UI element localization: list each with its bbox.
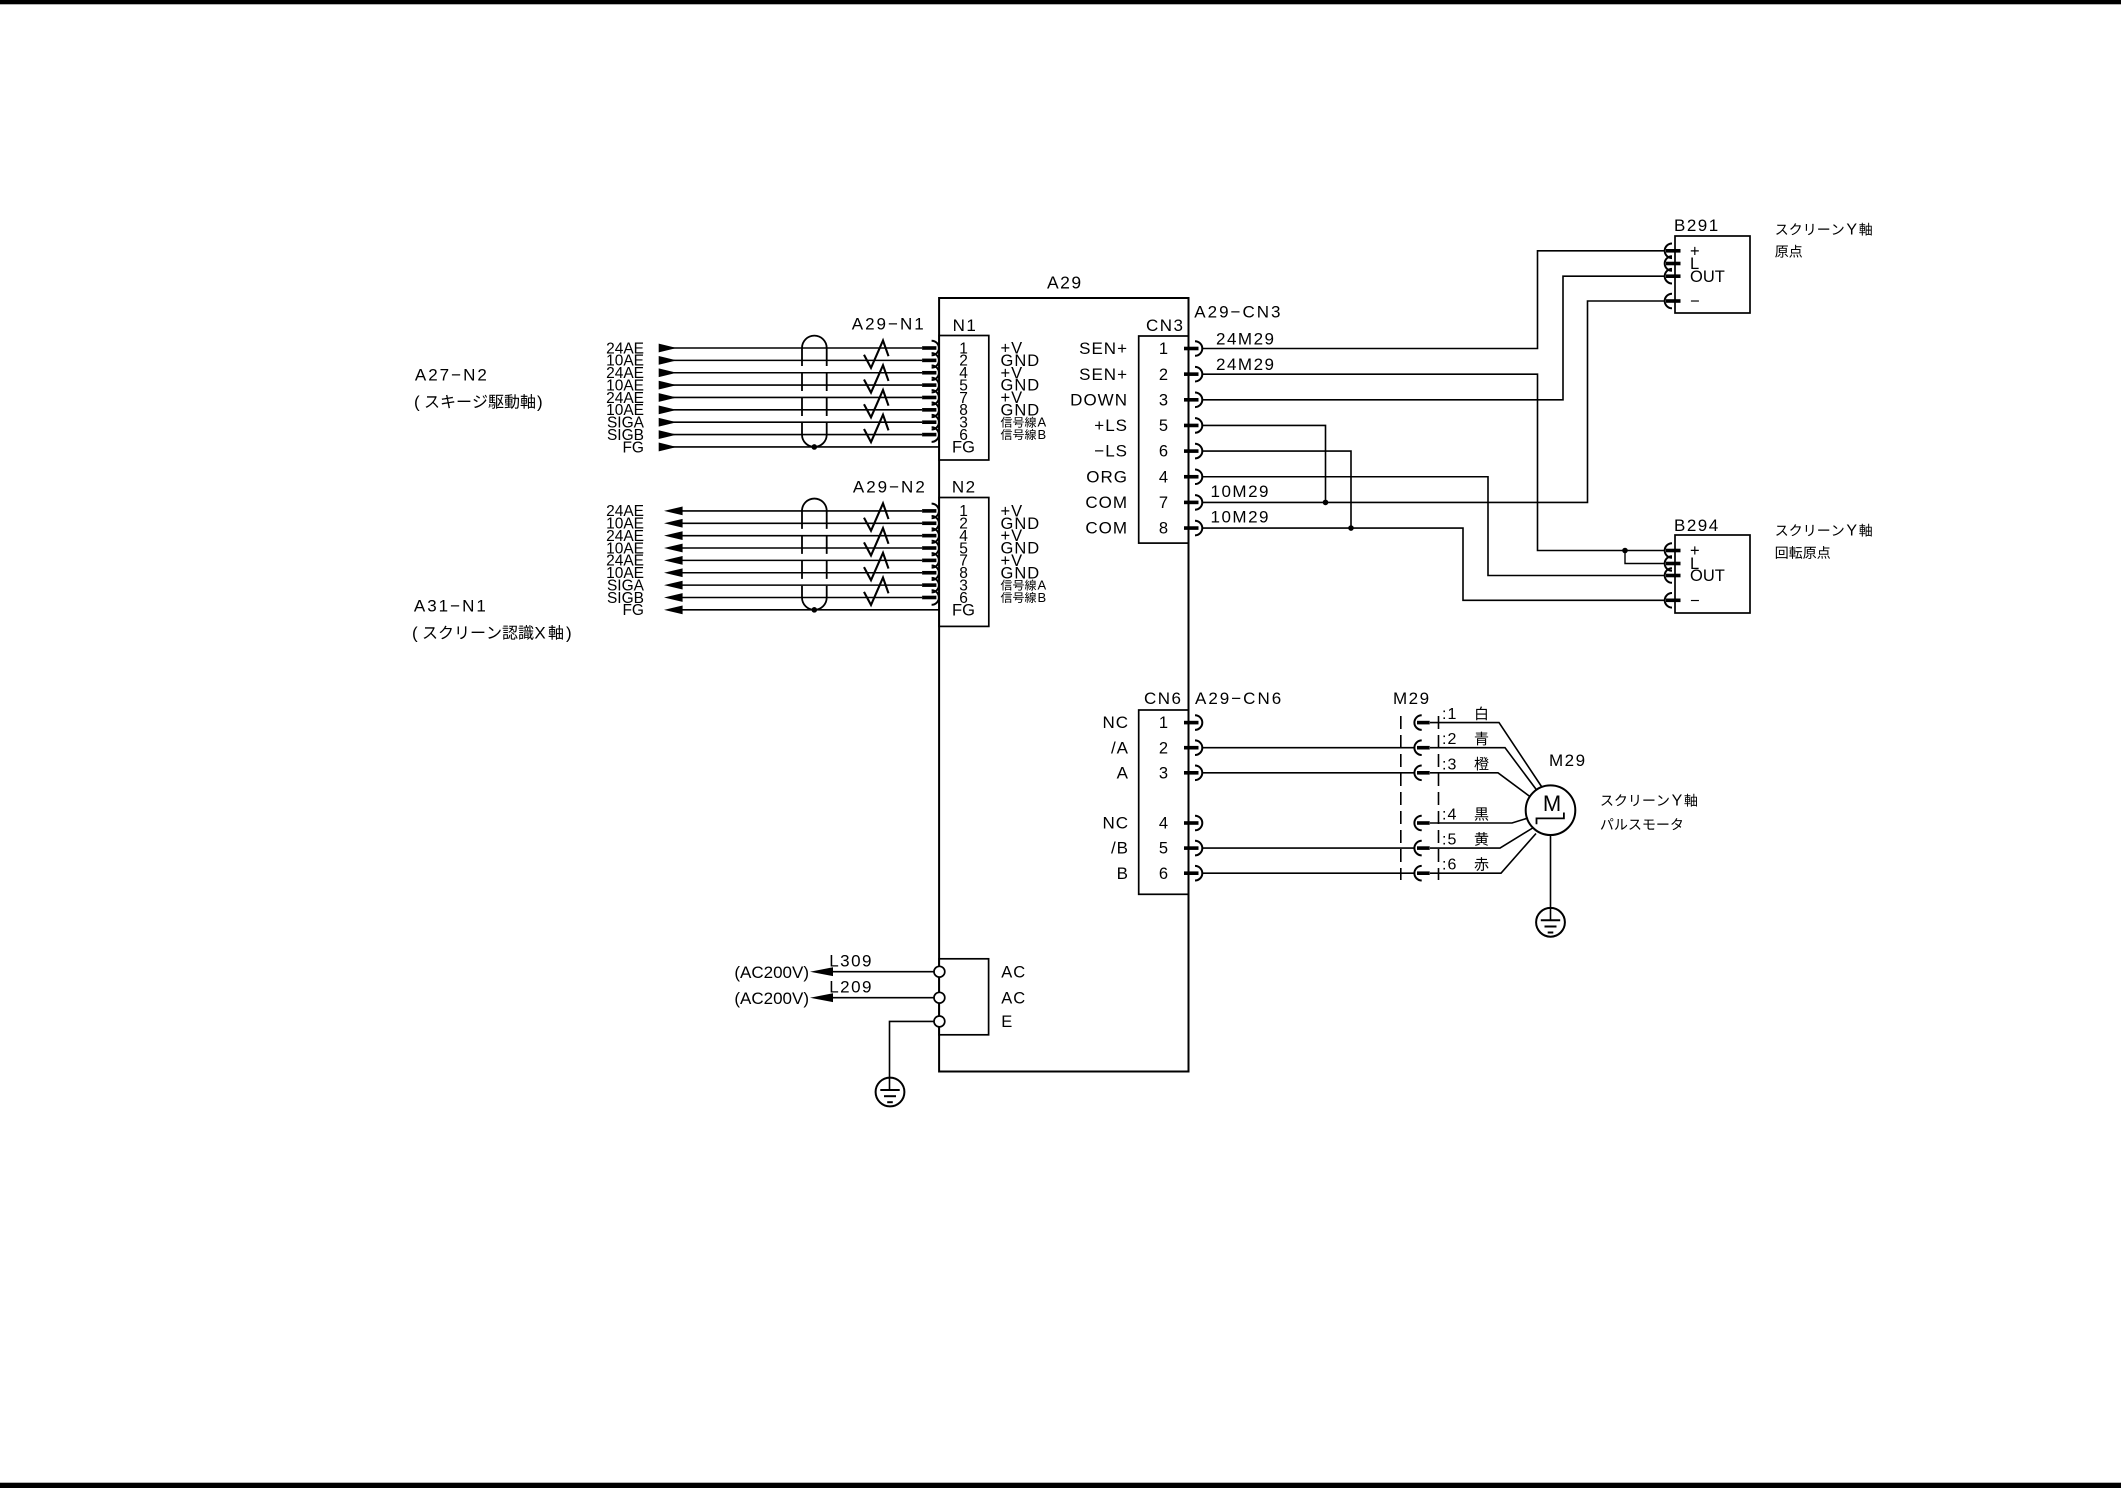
svg-text:E: E (1001, 1013, 1013, 1031)
svg-text:): ) (537, 393, 543, 412)
sensor B291 box (1674, 216, 1750, 313)
wire M29 pin 2 to motor (1430, 748, 1537, 791)
wire M29 pin 1 to motor (1430, 723, 1542, 787)
wire FG to N1 pin row 9 (622, 439, 939, 456)
wire M29 pin 6 to motor (1430, 834, 1536, 874)
svg-text:A29: A29 (1047, 273, 1083, 293)
connector CN3 box (1139, 303, 1283, 544)
wire label :3 橙 (1442, 756, 1489, 773)
svg-text:M29: M29 (1549, 751, 1587, 770)
svg-text:L209: L209 (829, 978, 873, 997)
svg-text:FG: FG (952, 439, 975, 457)
svg-text:CN6: CN6 (1144, 689, 1183, 708)
wire SIGA from N2 pin row 7 (607, 577, 922, 594)
connector M29 (cable side) (1393, 689, 1439, 880)
svg-text:/B: /B (1111, 839, 1129, 858)
svg-text:FG: FG (952, 601, 975, 619)
wire L209 (AC200V) (734, 978, 934, 1009)
svg-text:+LS: +LS (1094, 416, 1128, 435)
svg-text:(AC200V): (AC200V) (734, 989, 809, 1008)
svg-text:−: − (1690, 592, 1700, 610)
svg-text:SEN+: SEN+ (1079, 365, 1128, 384)
svg-text:COM: COM (1085, 519, 1128, 538)
wire M29 pin 4 to motor (1430, 818, 1528, 823)
connector N1 pin contacts (922, 341, 939, 442)
wire FG from N2 pin row 9 (622, 602, 939, 619)
svg-text:2: 2 (1159, 366, 1168, 384)
svg-text:GND: GND (1001, 401, 1041, 419)
svg-text:ORG: ORG (1086, 467, 1128, 486)
wire M29 pin 5 to motor (1430, 828, 1534, 849)
source label A27-N2 (414, 366, 543, 412)
svg-text:1: 1 (1159, 714, 1168, 732)
svg-text:B294: B294 (1674, 516, 1720, 535)
twisted pair symbol N1 pair 2 (864, 365, 889, 392)
svg-text::3: :3 (1442, 756, 1457, 773)
svg-text:N2: N2 (952, 478, 977, 497)
wire SIGB from N2 pin row 8 (607, 590, 922, 607)
svg-text:(: ( (414, 393, 420, 412)
twisted pair symbol N2 pair 3 (864, 553, 889, 580)
wire -LS CN3 pin6 to COM pin8 (1202, 451, 1354, 531)
motor ground wire (1550, 835, 1552, 920)
wire 24AE to N1 pin row 1 (606, 340, 922, 357)
wire SIGB to N1 pin row 8 (607, 427, 922, 444)
sensor B291 pin contacts (1665, 244, 1681, 309)
wire CN6 pin 5 to M29 connector (1202, 847, 1414, 849)
wire 24AE from N2 pin row 1 (606, 503, 922, 520)
wire label :4 黒 (1442, 807, 1488, 824)
svg-text:AC: AC (1001, 963, 1026, 981)
wire L309 (AC200V) (734, 952, 934, 983)
motor ground symbol (1536, 908, 1565, 937)
svg-text:B291: B291 (1674, 216, 1720, 235)
connector N1 box (852, 315, 989, 461)
svg-text:OUT: OUT (1690, 268, 1725, 286)
wire +LS CN3 pin5 to COM pin7 (1202, 425, 1328, 505)
svg-text:CN3: CN3 (1146, 316, 1185, 335)
twisted pair symbol N2 pair 4 (864, 578, 889, 605)
wire ORG CN3 pin4 to B294 OUT (1202, 477, 1664, 576)
wire label :1 白 (1442, 706, 1487, 723)
wire 24AE to N1 pin row 5 (606, 390, 922, 407)
wire CN6 pin 2 to M29 connector (1202, 747, 1414, 749)
svg-text:8: 8 (1159, 520, 1168, 538)
svg-text:A29−CN6: A29−CN6 (1195, 689, 1283, 708)
AC ground symbol (876, 1078, 905, 1107)
svg-text:AC: AC (1001, 989, 1026, 1007)
wire 24AE from N2 pin row 5 (606, 553, 922, 570)
svg-text:M29: M29 (1393, 689, 1431, 708)
svg-text:6: 6 (1159, 443, 1168, 461)
svg-text:1: 1 (1159, 340, 1168, 358)
svg-text:/A: /A (1111, 738, 1129, 757)
svg-text:2: 2 (1159, 739, 1168, 757)
twisted pair symbol N1 pair 1 (864, 341, 889, 368)
svg-text:): ) (566, 624, 572, 643)
svg-text:5: 5 (1159, 417, 1168, 435)
wire 10AE to N1 pin row 6 (606, 402, 922, 419)
svg-text:A29−N2: A29−N2 (853, 478, 927, 497)
source label A31-N1 (412, 597, 572, 643)
connector CN6 box (1139, 689, 1283, 894)
svg-text:A29−CN3: A29−CN3 (1194, 303, 1282, 322)
svg-text::6: :6 (1442, 857, 1457, 874)
svg-text:−LS: −LS (1094, 442, 1128, 461)
svg-text:FG: FG (622, 602, 644, 619)
wire CN6 pin 6 to M29 connector (1202, 872, 1414, 874)
wire 24M29 CN3 pin1 to B291 + (1202, 251, 1664, 349)
label screen Y axis pulse motor (1601, 793, 1697, 831)
wire 10AE from N2 pin row 6 (606, 565, 922, 582)
svg-text:3: 3 (1159, 764, 1168, 782)
wire 10M29 CN3 pin7 to B291 - (1202, 301, 1664, 502)
AC terminal box (939, 959, 1026, 1035)
svg-text:B: B (1038, 427, 1047, 442)
CN6 signal labels (1102, 713, 1129, 883)
wire label :6 赤 (1442, 857, 1489, 874)
svg-text:B: B (1117, 864, 1129, 883)
svg-text:(: ( (412, 624, 418, 643)
wire 10AE from N2 pin row 4 (606, 540, 922, 557)
sensor B294 box (1674, 516, 1750, 613)
wire 24M29 CN3 pin2 to B294 + (1202, 355, 1664, 550)
N1 pin function labels (1001, 340, 1047, 442)
svg-text::2: :2 (1442, 731, 1457, 748)
twisted pair symbol N1 pair 4 (864, 415, 889, 442)
svg-text:7: 7 (1159, 494, 1168, 512)
wire E to ground (890, 1021, 935, 1090)
svg-text:Y: Y (1846, 222, 1857, 239)
connector N2 pin contacts (922, 504, 939, 605)
unit A29 box (939, 273, 1188, 1072)
svg-text:SEN+: SEN+ (1079, 339, 1128, 358)
svg-text:6: 6 (1159, 865, 1168, 883)
cable shield A31-N1 (802, 499, 827, 613)
svg-text:3: 3 (1159, 391, 1168, 409)
svg-text:Y: Y (1846, 523, 1857, 540)
twisted pair symbol N2 pair 1 (864, 503, 889, 530)
connector CN6 pin contacts (1184, 715, 1202, 880)
wire 10M29 CN3 pin8 to B294 - (1202, 508, 1664, 601)
svg-text:10M29: 10M29 (1211, 508, 1270, 527)
CN3 signal labels (1070, 339, 1128, 538)
svg-text:COM: COM (1085, 493, 1128, 512)
svg-text:4: 4 (1159, 815, 1168, 833)
wire 24AE to N1 pin row 3 (606, 365, 922, 382)
twisted pair symbol N1 pair 3 (864, 390, 889, 417)
svg-text:−: − (1690, 293, 1700, 311)
wire M29 pin 3 to motor (1430, 773, 1531, 797)
connector N2 box (853, 478, 989, 627)
wire CN6 pin 3 to M29 connector (1202, 772, 1414, 774)
svg-text:B: B (1038, 590, 1047, 605)
svg-text:X: X (534, 624, 545, 643)
wire 10AE to N1 pin row 4 (606, 377, 922, 394)
svg-text::1: :1 (1442, 706, 1457, 723)
svg-text:OUT: OUT (1690, 567, 1725, 585)
svg-text:24M29: 24M29 (1216, 330, 1275, 349)
cable shield A27-N2 (802, 336, 827, 450)
wire 24AE from N2 pin row 3 (606, 528, 922, 545)
svg-text::5: :5 (1442, 832, 1457, 849)
svg-text:NC: NC (1102, 814, 1129, 833)
svg-text:10M29: 10M29 (1211, 482, 1270, 501)
svg-text:24M29: 24M29 (1216, 355, 1275, 374)
label screen Y axis origin (B291) (1775, 222, 1872, 258)
svg-text:5: 5 (1159, 840, 1168, 858)
connector CN3 pin contacts (1184, 341, 1202, 535)
svg-text:NC: NC (1102, 713, 1129, 732)
svg-text:(AC200V): (AC200V) (734, 963, 809, 982)
svg-text:A27−N2: A27−N2 (415, 366, 489, 385)
svg-text:A31−N1: A31−N1 (414, 597, 488, 616)
wire SIGA to N1 pin row 7 (607, 415, 922, 432)
svg-text:DOWN: DOWN (1070, 390, 1128, 409)
wire label :5 黄 (1442, 832, 1488, 849)
wire 10AE to N1 pin row 2 (606, 353, 922, 370)
motor M29 (1526, 751, 1587, 835)
connector M29 pin contacts (1414, 715, 1429, 880)
svg-text:N1: N1 (953, 316, 978, 335)
svg-text:L309: L309 (829, 952, 873, 971)
svg-text:GND: GND (1001, 564, 1041, 582)
svg-text:FG: FG (622, 439, 644, 456)
N2 pin function labels (1001, 503, 1047, 605)
label screen Y axis rotation origin (B294) (1776, 523, 1872, 559)
svg-text:M: M (1543, 791, 1561, 816)
wire 10AE from N2 pin row 2 (606, 516, 922, 533)
svg-text::4: :4 (1442, 807, 1457, 824)
AC terminal circles (934, 966, 945, 1027)
twisted pair symbol N2 pair 2 (864, 528, 889, 555)
sensor B294 pin contacts (1665, 543, 1681, 607)
wire label :2 青 (1442, 731, 1488, 748)
svg-text:Y: Y (1672, 793, 1683, 810)
svg-text:A29−N1: A29−N1 (852, 315, 926, 334)
wire DOWN CN3 pin3 to B291 OUT (1202, 276, 1664, 400)
svg-text:4: 4 (1159, 468, 1168, 486)
junction dot B294 + / L jumper (1622, 548, 1664, 564)
svg-text:A: A (1117, 763, 1129, 782)
